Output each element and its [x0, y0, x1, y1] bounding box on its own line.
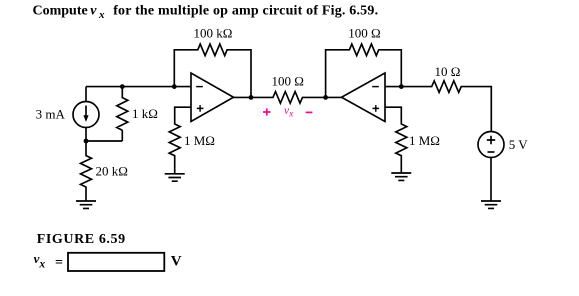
svg-text:100 kΩ: 100 kΩ [194, 26, 233, 41]
svg-text:20 kΩ: 20 kΩ [96, 164, 128, 179]
svg-text:1 MΩ: 1 MΩ [409, 133, 440, 148]
svg-text:100 Ω: 100 Ω [271, 74, 303, 89]
svg-text:5 V: 5 V [509, 137, 529, 152]
svg-text:Computevxfor the multiple op a: Computevxfor the multiple op amp circuit… [33, 4, 379, 22]
svg-text:1 kΩ: 1 kΩ [132, 106, 158, 121]
svg-text:FIGURE 6.59: FIGURE 6.59 [37, 232, 126, 247]
svg-text:3 mA: 3 mA [36, 107, 66, 122]
svg-text:=: = [55, 255, 63, 270]
svg-text:100 Ω: 100 Ω [348, 26, 380, 41]
svg-text:1 MΩ: 1 MΩ [184, 133, 215, 148]
svg-text:10 Ω: 10 Ω [434, 64, 460, 79]
svg-text:V: V [171, 254, 182, 270]
